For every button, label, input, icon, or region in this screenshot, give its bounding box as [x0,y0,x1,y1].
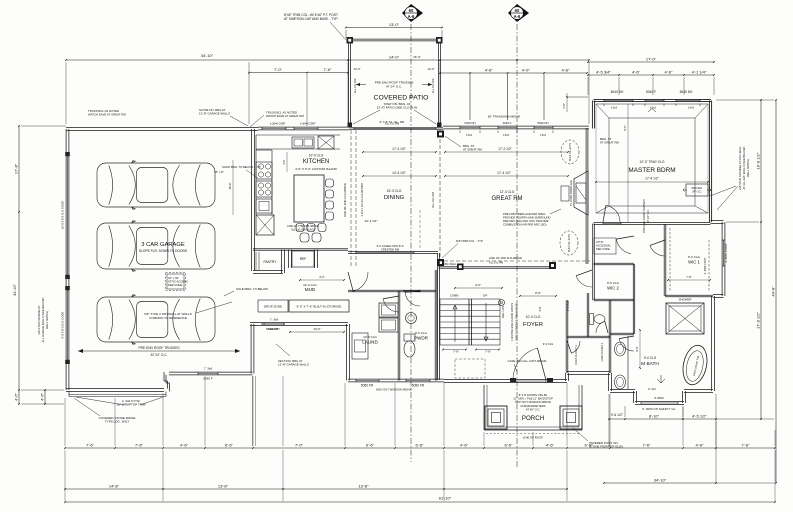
svg-text:2-3046 CSMT: 2-3046 CSMT [724,243,728,262]
stair left wall [437,253,439,380]
front door opening [513,380,546,382]
garage door openings left wall [67,156,69,275]
master door opening [603,223,621,225]
svg-text:4'-6": 4'-6" [460,442,469,447]
kitchen counters top [255,135,257,215]
svg-text:17'-4 1/2": 17'-4 1/2" [392,147,407,151]
svg-text:8x8 TRIM COL. - TYP: 8x8 TRIM COL. - TYP [456,239,483,243]
svg-text:SIZE & SPACING PER MANUF: SIZE & SPACING PER MANUF [515,303,519,340]
svg-text:PRE FAB FIREPLACE PER SPEC.: PRE FAB FIREPLACE PER SPEC. [503,212,546,216]
svg-text:KITCHEN: KITCHEN [303,159,329,165]
svg-text:12' AT PATIO (SEE CLG PLN): 12' AT PATIO (SEE CLG PLN) [377,106,418,110]
svg-text:14'-8": 14'-8" [109,483,120,488]
garage truss arrow [78,350,240,352]
bottom extension lines [64,398,66,446]
wic1 walls [663,224,665,296]
svg-text:5040 DH: 5040 DH [268,327,279,331]
patio step leaders [353,110,380,124]
bottom long extensions [64,450,66,501]
svg-text:9'-6 1/2": 9'-6 1/2" [611,413,624,417]
mud south door [264,323,284,325]
kitchen wall oven [256,199,272,213]
great rm niche circle bottom [560,231,578,255]
shower [666,303,704,334]
svg-text:12'-0": 12'-0" [353,67,360,71]
built-in storage [289,300,349,312]
wic2 walls [594,262,635,264]
top dim extension lines [65,62,67,124]
svg-text:TV OVER FIREPLACE: TV OVER FIREPLACE [569,180,573,206]
kitchen chairs lower [300,233,309,242]
laundry door arc [383,299,399,312]
svg-text:3 CAR GARAGE: 3 CAR GARAGE [141,242,185,248]
svg-text:SHOWER: SHOWER [679,298,692,302]
kitchen sink [292,137,314,148]
svg-text:4'-6": 4'-6" [40,392,45,401]
master mid dim line [596,181,708,183]
svg-text:AT GREAT RM: AT GREAT RM [600,141,620,145]
svg-text:WATCH EAVE AT GREAT RM: WATCH EAVE AT GREAT RM [266,114,304,118]
attic access note [594,238,616,254]
svg-text:COAT CLOSET 1: COAT CLOSET 1 [574,345,578,365]
secondary top dim line [249,72,348,74]
svg-text:5040 DH: 5040 DH [537,121,548,125]
svg-text:5040 DH: 5040 DH [611,90,624,94]
svg-text:6'-6": 6'-6" [366,442,375,447]
svg-text:9'-0 CLG: 9'-0 CLG [607,281,620,285]
svg-text:7'-6": 7'-6" [742,442,751,447]
line of 2nd floor dashed [350,130,352,268]
powder toilet [404,334,415,341]
mud hall small dims [290,331,344,333]
kitchen second appliance [256,181,272,197]
svg-text:LINE OF 2ND FLR ABOVE: LINE OF 2ND FLR ABOVE [489,256,522,260]
svg-text:PWDR: PWDR [414,336,429,341]
bottom dim chain 2 [65,488,567,490]
svg-text:REF: REF [300,257,307,261]
wc door [596,321,605,333]
svg-text:7. 3x8: 7. 3x8 [270,318,279,322]
svg-text:8'-0" X 7'-6" BUILT-IN STORAGE: 8'-0" X 7'-6" BUILT-IN STORAGE [297,305,342,309]
svg-text:WIC 1: WIC 1 [688,260,700,265]
mbath walls [632,300,634,334]
dining clg dashes [419,210,421,250]
right dim chain outer [775,100,777,483]
svg-text:6'-6": 6'-6" [585,442,594,447]
left second dim [44,390,46,404]
svg-text:ALL LVL RM: ALL LVL RM [431,192,435,208]
master offset dim [567,96,588,98]
svg-text:7'-8": 7'-8" [686,275,691,279]
svg-text:ACCESS/AL: ACCESS/AL [596,244,611,248]
section cut line left [410,24,412,462]
svg-text:4'-1 1/4": 4'-1 1/4" [692,69,707,74]
svg-text:17'-0": 17'-0" [646,56,657,61]
master vertical ext line [627,104,629,222]
right dim chain inner [760,100,762,419]
svg-text:9'-0 CLG: 9'-0 CLG [543,342,553,346]
svg-text:4'-6": 4'-6" [475,283,481,287]
laundry sink counter [352,333,368,359]
svg-text:12' AT GARAGE WALLS: 12' AT GARAGE WALLS [278,363,309,367]
great rm window ext lines [469,74,471,120]
svg-text:6'-6": 6'-6" [225,442,234,447]
top dim line 34'-10 garage+kitchen [66,59,348,61]
master south door [606,205,620,222]
laundry front windows [356,380,379,382]
kitchen range [256,162,272,179]
garage front wall upper [169,371,253,373]
great rm column line [439,133,441,266]
master top wall [594,98,712,100]
svg-text:9'-0 CLG: 9'-0 CLG [688,255,701,259]
patio post left [347,37,354,44]
bottom dim chain full [65,501,775,503]
patio truss arrows [356,84,366,86]
patio base post right [437,123,442,128]
garage door stoop outline [69,394,166,396]
svg-text:4'-5 3/4": 4'-5 3/4" [596,69,611,74]
svg-text:8'-0": 8'-0" [623,125,627,131]
svg-text:10'-0 CLG: 10'-0 CLG [526,315,541,319]
svg-text:b 5x3: b 5x3 [466,134,473,137]
great rm col bottom [437,259,444,266]
gallery arcs [353,272,368,291]
svg-text:4'-6": 4'-6" [562,103,566,108]
svg-text:17'-8 1/2": 17'-8 1/2" [756,311,761,328]
svg-text:60: 60 [515,8,520,13]
svg-text:7'-6": 7'-6" [86,442,95,447]
svg-text:14'-4 1/2": 14'-4 1/2" [392,171,407,175]
car [97,295,215,345]
porch slab [483,385,485,430]
svg-text:4'-6": 4'-6" [546,442,555,447]
svg-text:4'-0": 4'-0" [522,67,531,72]
svg-text:14'-0": 14'-0" [389,54,400,59]
svg-text:9'-0 X 8'-0 O.H. DOOR: 9'-0 X 8'-0 O.H. DOOR [61,312,65,339]
svg-text:M BATH: M BATH [641,361,659,367]
line of 2nd flr above hall [438,260,590,262]
master top dim subdivisions [588,74,714,76]
svg-text:12' AT GARAGE WALLS: 12' AT GARAGE WALLS [199,112,230,116]
svg-text:2x6 STUD FRAMING AT: 2x6 STUD FRAMING AT [37,305,41,334]
svg-text:CASE. PLN ALL LOFT ABOVE: CASE. PLN ALL LOFT ABOVE [508,359,547,363]
patio post right [436,37,443,44]
porch east return wall [565,373,567,381]
svg-text:RAIL 1 DN: RAIL 1 DN [501,306,505,318]
kitchen top wall [258,126,349,128]
section marker 60/A-6 left [402,4,423,22]
svg-text:ATTIC: ATTIC [596,240,604,244]
svg-text:FOYER: FOYER [523,322,543,328]
master win seat [686,184,708,196]
svg-text:5'-0 CASED OPN 8'-0: 5'-0 CASED OPN 8'-0 [377,244,404,248]
svg-text:7'-6": 7'-6" [643,442,652,447]
svg-text:7'-6": 7'-6" [324,67,333,72]
svg-text:34'-10": 34'-10" [13,283,17,295]
laundry room walls [397,291,399,381]
svg-text:A-6: A-6 [514,14,521,19]
svg-text:34'-10": 34'-10" [654,477,667,482]
mbath right wall [711,296,713,391]
patio door wall great rm side [349,127,443,129]
kitchen corner cabinet X [318,136,334,149]
mbath door [619,339,634,351]
master ceiling arrow [648,109,656,113]
svg-text:SLOPE FLR. DOWN TO DOORS: SLOPE FLR. DOWN TO DOORS [139,249,188,253]
svg-text:AT ALL EXT. WALLS (SEE BRACED: AT ALL EXT. WALLS (SEE BRACED [742,146,746,189]
svg-text:17'-4 1/2": 17'-4 1/2" [497,171,512,175]
svg-text:4040 F: 4040 F [503,121,512,125]
hall small dims [455,287,502,289]
island stools [326,179,334,187]
svg-text:16'-0 X 8'-0 O.H. DOOR: 16'-0 X 8'-0 O.H. DOOR [61,201,65,229]
car [97,221,215,272]
garage front wall lower [66,388,164,390]
svg-text:ALL LVL RM PLACE: ALL LVL RM PLACE [291,228,315,232]
svg-text:4'-6": 4'-6" [282,159,286,164]
hall column mid [457,264,464,271]
svg-text:PRE ENG ROOF TRUSSES: PRE ENG ROOF TRUSSES [642,199,646,233]
svg-text:COMM: COMM [450,294,458,298]
svg-text:2. 3068 CSMT: 2. 3068 CSMT [703,257,707,274]
svg-text:4'-6": 4'-6" [665,69,674,74]
svg-text:ALL LVL RM: ALL LVL RM [385,122,399,126]
svg-text:WALL NOTES): WALL NOTES) [45,311,49,329]
svg-text:13'-8": 13'-8" [218,483,229,488]
svg-text:36'-8": 36'-8" [228,183,232,190]
svg-text:SOLID BRG. TO BELOW: SOLID BRG. TO BELOW [236,287,268,291]
svg-text:56" TRANSOMS ABOVE: 56" TRANSOMS ABOVE [488,115,521,119]
svg-text:ATTIC ACCESS: ATTIC ACCESS [168,280,188,284]
svg-text:LOW CLOSET 1: LOW CLOSET 1 [600,342,604,361]
mbath vanity [627,336,629,389]
svg-text:ALL GARAGE WALLS (SEE BRACED: ALL GARAGE WALLS (SEE BRACED [41,297,45,342]
drop zone bench [258,300,288,312]
svg-text:ALL LVL RM: ALL LVL RM [353,79,357,94]
hall column right [549,262,556,269]
ref niche [288,250,290,269]
svg-text:LAUND: LAUND [362,340,378,345]
bottom dim right 34-10 [604,482,716,484]
svg-text:PER NRC (SD) AND GSV. PROVIDE: PER NRC (SD) AND GSV. PROVIDE [503,219,549,223]
svg-text:4'-0" X 9'-0" CUSTOM ISLAND: 4'-0" X 9'-0" CUSTOM ISLAND [295,167,338,171]
svg-text:12" SKFL / PLB 12" BACKSTOP: 12" SKFL / PLB 12" BACKSTOP [513,397,553,401]
wic1 bottom jog [713,294,724,296]
svg-text:PER CODE: PER CODE [596,247,610,251]
svg-text:15'-0 CLG: 15'-0 CLG [387,189,402,193]
wc toilet [590,314,594,325]
svg-text:5040 DH: 5040 DH [464,121,475,125]
svg-text:8'-10": 8'-10" [649,413,660,418]
svg-text:5050 FR: 5050 FR [361,384,374,388]
dining south wall [348,251,438,253]
stair newel [499,300,505,306]
great rm window jamb ticks [459,131,461,134]
stoop leader notes [76,397,124,405]
svg-text:4'-6": 4'-6" [632,69,641,74]
svg-text:4'-6": 4'-6" [538,306,542,311]
svg-text:4'-0": 4'-0" [319,275,324,279]
garage left wall [65,129,67,390]
left dim chain outer [18,126,20,404]
svg-text:60: 60 [409,8,414,13]
garage right front wall [250,324,252,374]
svg-text:CURVE/DRAFTERS: CURVE/DRAFTERS [520,404,545,408]
fireplace hearth [561,186,569,201]
svg-text:PRE ENG ROOF TRUSSES: PRE ENG ROOF TRUSSES [138,346,180,350]
svg-text:A-6: A-6 [408,14,415,19]
kitchen small dim [286,152,288,172]
svg-text:13'-0": 13'-0" [389,22,400,27]
svg-text:4'-6": 4'-6" [485,67,494,72]
foyer front wall [444,379,567,381]
great rm top windows [460,127,480,129]
svg-text:7. 3x8: 7. 3x8 [204,367,213,371]
mbath floor arrow [657,375,665,383]
garage right wall [251,129,253,271]
svg-text:5 3060: 5 3060 [654,396,664,400]
svg-text:7'-0": 7'-0" [295,442,304,447]
great rm east wall [585,128,587,264]
master win seat leader [710,186,736,196]
mbath bottom wall [684,389,713,391]
svg-text:2x6 STUD FRAMING AT FULL WALL: 2x6 STUD FRAMING AT FULL WALL [738,146,742,190]
svg-text:7'-8": 7'-8" [485,350,491,354]
garage front window [198,373,218,375]
closet door arc [571,341,580,353]
svg-text:WIC 2: WIC 2 [607,286,619,291]
svg-text:24'-4 1/2": 24'-4 1/2" [365,219,378,223]
svg-text:8'-0": 8'-0" [635,346,639,351]
svg-text:5040 F: 5040 F [203,377,213,381]
fireplace [574,171,588,215]
covered patio outline [350,38,440,40]
svg-text:5040 DH: 5040 DH [680,90,693,94]
svg-text:61'-10": 61'-10" [439,496,452,501]
svg-text:DINING: DINING [384,195,405,201]
dining dim lines [363,151,436,153]
garage attic access [167,274,184,289]
section cut line right [516,24,518,468]
svg-text:COVERED PATIO: COVERED PATIO [374,95,429,102]
car [97,161,215,210]
master top dim 17'-0 [588,61,714,63]
svg-text:b 5x3: b 5x3 [650,107,657,110]
svg-text:9'-8": 9'-8" [535,291,541,295]
patio base post left [348,123,353,128]
svg-text:4'-5 1/2": 4'-5 1/2" [692,413,707,418]
svg-text:LINE OF THE FLR ABOVE: LINE OF THE FLR ABOVE [287,224,319,228]
great rm col top [437,131,444,138]
great rm south wall [439,266,557,268]
kitchen island [294,175,324,222]
svg-text:7'-8": 7'-8" [453,350,459,354]
svg-text:4'-6": 4'-6" [180,442,189,447]
svg-text:AT 24" O.C.: AT 24" O.C. [386,85,402,89]
powder sink [406,313,417,324]
mbath small dim [639,330,641,368]
svg-text:AT SIMPSON CAP AND BASE - TYP.: AT SIMPSON CAP AND BASE - TYP. [284,17,338,21]
laundry west wall [346,324,348,381]
svg-text:MUD: MUD [305,287,316,292]
svg-text:UP: UP [483,294,487,298]
section marker 60/A-6 right [508,4,529,22]
powder room walls [434,270,436,381]
svg-text:MCH OUT WINDOW ABOVE: MCH OUT WINDOW ABOVE [376,388,412,392]
great rm dim line upper [445,151,568,153]
porch post left [485,406,507,429]
wic1 small dim [668,279,710,281]
svg-text:6'-6": 6'-6" [505,442,514,447]
svg-text:7'-0": 7'-0" [274,67,283,72]
great rm top dim row [440,72,587,74]
svg-text:BUILT-IN LEFTS: BUILT-IN LEFTS [569,143,572,161]
svg-text:CRESTED RM: CRESTED RM [381,248,400,252]
svg-text:b 5x3: b 5x3 [611,107,618,110]
powder door opening [404,290,420,292]
svg-text:LINE OF 2ND FLR ABOVE: LINE OF 2ND FLR ABOVE [343,183,347,217]
svg-text:12'-0 CLG: 12'-0 CLG [500,190,515,194]
svg-text:MCH OUT WINDOW ABOVE: MCH OUT WINDOW ABOVE [515,400,551,404]
kitchen top windows [262,128,286,130]
svg-text:12" WRAPTOP TRIM: 12" WRAPTOP TRIM [117,403,146,407]
svg-text:9'-0 CLG: 9'-0 CLG [415,331,428,335]
svg-text:PANTRY: PANTRY [264,260,278,264]
wic1 jog wall [711,220,724,222]
mbath west lower wall [608,373,610,391]
svg-text:AT 24" O.C.: AT 24" O.C. [150,353,167,357]
tub [680,343,711,387]
svg-text:4'-6": 4'-6" [696,442,705,447]
stairs [440,299,500,345]
stair landing dashed [455,359,485,378]
mbath bay window [682,391,684,403]
wic2 south wall [567,371,610,373]
mbath bottom dims [609,418,716,420]
svg-text:34'-10": 34'-10" [201,53,214,58]
svg-text:5. 3060 ON SAFETY GL: 5. 3060 ON SAFETY GL [642,407,675,411]
svg-text:b 5x3: b 5x3 [540,134,547,137]
pantry room [281,250,283,274]
laundry appliances [379,303,398,317]
svg-text:17'-8": 17'-8" [14,163,19,174]
svg-text:17'-2 1/2": 17'-2 1/2" [498,147,513,151]
wic1 right wall [721,222,723,296]
svg-text:16'-0": 16'-0" [413,55,421,59]
master left wall [591,101,593,129]
svg-text:GREAT RM: GREAT RM [491,196,522,202]
svg-text:22" x 30": 22" x 30" [168,276,179,280]
front door jambs [510,378,516,383]
svg-text:10'-0 CLG: 10'-0 CLG [363,335,377,339]
patio dim 13'-0 [346,27,442,29]
porch roof line [486,433,580,435]
garage top wall [66,127,258,129]
laundry front wall [348,378,444,380]
master right wall [708,101,710,223]
svg-text:BUILT-IN LEFTS: BUILT-IN LEFTS [568,234,571,252]
porch post note [573,428,588,441]
svg-text:10'-0 CLG: 10'-0 CLG [309,154,324,158]
svg-text:5040 F: 5040 F [646,90,656,94]
svg-text:WATCH EAVE AT GREAT RM: WATCH EAVE AT GREAT RM [88,113,126,117]
master suite hall walls [592,224,594,301]
wic1 interior [669,228,671,292]
garage nook wall [250,322,348,324]
svg-text:SOLID BRG. TO BELOW - TYP: SOLID BRG. TO BELOW - TYP [222,165,261,169]
svg-text:PER CODE: PER CODE [168,283,183,287]
